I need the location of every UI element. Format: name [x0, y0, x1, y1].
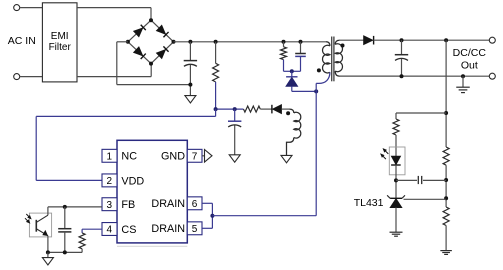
- svg-text:4: 4: [107, 225, 113, 236]
- svg-text:3: 3: [107, 200, 113, 211]
- svg-text:Out: Out: [461, 60, 478, 72]
- svg-text:6: 6: [192, 199, 198, 210]
- svg-text:NC: NC: [121, 151, 137, 163]
- svg-text:DC/CC: DC/CC: [453, 47, 487, 59]
- svg-text:2: 2: [107, 176, 113, 187]
- svg-text:AC IN: AC IN: [8, 35, 36, 47]
- svg-text:TL431: TL431: [354, 197, 384, 209]
- svg-text:CS: CS: [121, 224, 136, 236]
- svg-text:FB: FB: [121, 199, 135, 211]
- svg-text:DRAIN: DRAIN: [151, 198, 185, 210]
- svg-text:7: 7: [192, 152, 198, 163]
- svg-text:GND: GND: [161, 151, 185, 163]
- svg-text:5: 5: [192, 224, 198, 235]
- svg-text:VDD: VDD: [121, 175, 144, 187]
- svg-text:Filter: Filter: [49, 42, 72, 53]
- svg-text:EMI: EMI: [51, 31, 69, 42]
- svg-text:DRAIN: DRAIN: [151, 223, 185, 235]
- svg-text:1: 1: [107, 152, 113, 163]
